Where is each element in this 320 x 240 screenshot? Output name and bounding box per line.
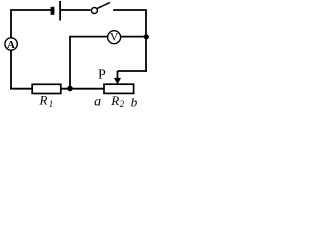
resistor R2 (potentiometer) body bbox=[104, 84, 134, 93]
switch S: pivot circle bbox=[91, 8, 97, 14]
wire: right vertical from top-right corner down to jog bbox=[145, 10, 147, 72]
battery: short thick plate (negative) bbox=[51, 7, 55, 15]
wiper arrowhead pointing down onto R2 bbox=[114, 78, 121, 84]
resistor R1 body bbox=[32, 84, 61, 93]
svg-text:R: R bbox=[39, 92, 48, 107]
voltmeter V bbox=[108, 31, 121, 44]
svg-text:P: P bbox=[98, 67, 106, 82]
svg-text:a: a bbox=[94, 95, 101, 110]
svg-text:R: R bbox=[110, 93, 119, 108]
svg-text:A: A bbox=[7, 39, 15, 51]
svg-text:V: V bbox=[110, 32, 119, 44]
wire: left vertical (top-left corner down to bottom-left corner) bbox=[10, 10, 12, 89]
switch S: open lever arm bbox=[97, 2, 110, 8]
svg-text:b: b bbox=[131, 95, 138, 110]
wire: top horizontal from battery to switch bbox=[60, 9, 91, 11]
svg-text:1: 1 bbox=[49, 99, 54, 109]
wire: voltmeter branch vertical leg from bottom node up bbox=[69, 37, 71, 89]
wire: top horizontal from switch to top-right corner bbox=[113, 9, 147, 11]
wire: top horizontal from top-left corner to battery bbox=[10, 9, 51, 11]
node: junction dot on right wire at voltmeter branch bbox=[144, 34, 149, 39]
wire: wiper stem vertical bbox=[117, 71, 119, 80]
node: junction dot on bottom wire bbox=[67, 86, 73, 92]
battery: long thin plate (positive) bbox=[59, 1, 61, 21]
svg-text:2: 2 bbox=[120, 99, 125, 109]
ammeter A bbox=[5, 38, 17, 50]
wire: voltmeter branch horizontal through V to right wire bbox=[69, 36, 147, 38]
wire: bottom horizontal from bottom-left corner through R1 to R2 bbox=[10, 88, 104, 90]
wire: jog horizontal toward wiper bbox=[118, 70, 147, 72]
